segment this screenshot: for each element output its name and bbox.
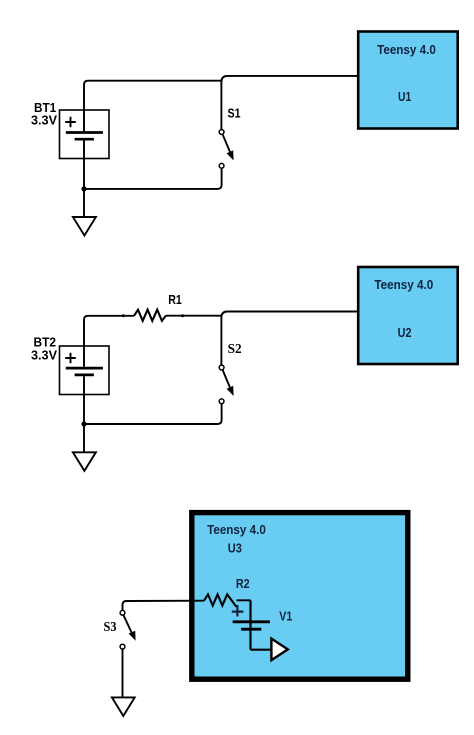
wire switch S2 column to U2 — [221, 312, 358, 367]
wire switch S1 bottom to battery BT1 bottom — [84, 168, 222, 189]
voltage source V1 — [232, 600, 270, 649]
wire resistor R2 to V1 — [237, 599, 251, 601]
svg-text:S3: S3 — [104, 619, 117, 634]
wire switch S3 top to resistor R2 — [123, 601, 205, 611]
svg-text:3.3V: 3.3V — [31, 348, 57, 363]
buffer triangle of V1 — [271, 639, 287, 661]
svg-text:Teensy 4.0: Teensy 4.0 — [374, 277, 433, 292]
resistor R1 — [134, 310, 166, 321]
resistor R2 — [204, 594, 236, 607]
pin dot R1 left — [122, 314, 125, 317]
battery BT2 — [60, 346, 110, 396]
junction node BT2/ground — [81, 421, 86, 426]
svg-text:S1: S1 — [228, 105, 241, 120]
ground symbol section 3 — [112, 697, 135, 716]
wire switch S3 bottom to ground — [122, 649, 124, 697]
svg-text:3.3V: 3.3V — [31, 113, 57, 128]
svg-text:S2: S2 — [228, 341, 242, 356]
wire V1 bottom to buffer — [251, 649, 272, 651]
svg-text:U1: U1 — [398, 89, 411, 104]
wire switch S2 bottom to battery BT2 bottom — [84, 404, 222, 424]
svg-text:V1: V1 — [279, 609, 292, 624]
svg-text:U3: U3 — [228, 541, 242, 556]
switch S1 — [219, 130, 233, 169]
pin dot R1 right — [181, 314, 184, 317]
svg-text:R1: R1 — [168, 292, 182, 307]
wire resistor R1 to switch S2 column — [166, 315, 222, 317]
switch S2 — [219, 365, 233, 404]
wire BT1 bottom to ground — [83, 159, 85, 218]
svg-text:U2: U2 — [398, 325, 412, 340]
Teensy 4.0 box U2 — [358, 267, 458, 364]
wire battery BT1 top to switch S1 column — [84, 81, 221, 112]
Teensy 4.0 box U1 — [358, 32, 458, 129]
ground symbol section 2 — [73, 452, 96, 471]
svg-text:Teensy 4.0: Teensy 4.0 — [377, 42, 436, 57]
wire switch S1 column to U1 — [221, 76, 358, 131]
wire BT2 bottom to ground — [83, 394, 85, 452]
Teensy 4.0 box U3 — [192, 513, 408, 680]
switch S3 — [120, 610, 136, 649]
battery BT1 — [60, 110, 110, 160]
wire battery BT2 top to resistor R1 — [84, 316, 134, 348]
ground symbol section 1 — [73, 217, 96, 236]
svg-text:R2: R2 — [236, 576, 250, 591]
svg-text:Teensy 4.0: Teensy 4.0 — [207, 522, 266, 537]
junction node BT1/ground — [81, 186, 86, 191]
